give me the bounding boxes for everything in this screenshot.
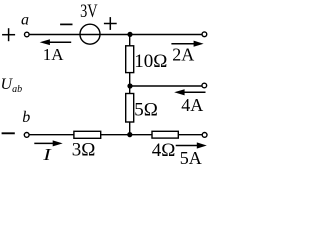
terminal middle right open circle (202, 83, 207, 88)
svg-text:2A: 2A (172, 44, 194, 64)
terminal b open circle (24, 133, 29, 138)
svg-text:3V: 3V (80, 1, 98, 22)
svg-text:4Ω: 4Ω (152, 140, 176, 161)
voltage source plus sign (104, 17, 117, 30)
wire bottom (b to right terminal) (29, 134, 202, 136)
junction node middle (127, 83, 132, 88)
voltage source minus sign (60, 23, 72, 25)
wire top (a to right terminal) (29, 34, 202, 36)
terminal a open circle (25, 32, 30, 37)
resistor R4 4ohm body (152, 131, 178, 138)
svg-text:5Ω: 5Ω (134, 100, 158, 121)
voltage source V1 3V circle (80, 24, 100, 44)
svg-text:10Ω: 10Ω (134, 51, 167, 72)
svg-text:5A: 5A (180, 148, 202, 168)
current arrow 5A (pointing right) (176, 142, 207, 148)
svg-text:a: a (21, 12, 29, 29)
junction node bottom (127, 132, 132, 137)
wire vertical branch middle segment (129, 73, 131, 94)
svg-text:Uab: Uab (1, 76, 23, 95)
current arrow 1A (pointing left) (40, 39, 71, 45)
terminal top right open circle (202, 32, 207, 37)
current arrow I (pointing right) (34, 140, 62, 146)
svg-text:I: I (42, 145, 53, 164)
junction node top (127, 32, 132, 37)
current arrow 4A (pointing left) (174, 89, 205, 95)
wire middle (node to right terminal) (130, 85, 202, 87)
svg-text:b: b (22, 109, 30, 126)
resistor R1 10ohm body (126, 46, 134, 73)
current arrow 2A (pointing right) (171, 41, 203, 47)
wire vertical branch top segment (129, 35, 131, 47)
resistor R2 5ohm body (126, 94, 134, 123)
terminal bottom right open circle (202, 133, 207, 138)
svg-text:1A: 1A (43, 45, 65, 64)
wire vertical branch bottom segment (129, 122, 131, 135)
svg-text:4A: 4A (181, 95, 203, 115)
polarity minus sign at b (2, 132, 15, 134)
polarity plus sign at a (2, 28, 15, 41)
resistor R3 3ohm body (74, 131, 101, 138)
svg-text:3Ω: 3Ω (72, 140, 96, 161)
